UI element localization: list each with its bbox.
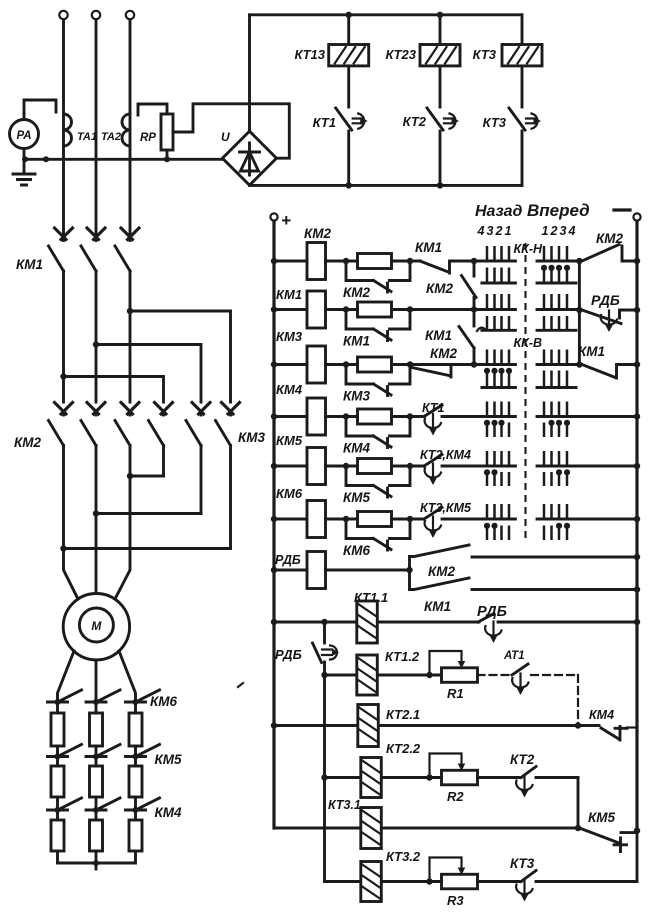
svg-text:КМ1: КМ1 [276, 287, 302, 302]
svg-text:КМ3: КМ3 [238, 430, 266, 445]
svg-text:КТ3: КТ3 [510, 856, 535, 871]
svg-text:КМ3: КМ3 [276, 329, 303, 344]
svg-text:М: М [91, 619, 102, 633]
svg-text:R3: R3 [447, 893, 464, 908]
svg-text:R2: R2 [447, 789, 464, 804]
svg-text:КМ6: КМ6 [150, 694, 178, 709]
svg-text:КМ5: КМ5 [155, 752, 183, 767]
svg-text:КМ1: КМ1 [343, 334, 370, 349]
svg-text:R1: R1 [447, 686, 464, 701]
svg-text:КТ2.2: КТ2.2 [386, 741, 421, 756]
svg-text:КМ4: КМ4 [276, 382, 303, 397]
svg-text:КМ5: КМ5 [276, 433, 303, 448]
svg-text:КМ2: КМ2 [304, 226, 332, 241]
svg-text:КК-В: КК-В [514, 336, 543, 350]
svg-text:РДБ: РДБ [275, 553, 301, 567]
svg-text:RP: RP [140, 132, 156, 144]
svg-text:КМ1: КМ1 [424, 599, 451, 614]
svg-text:АТ1: АТ1 [503, 650, 525, 662]
svg-text:2: 2 [495, 224, 503, 238]
svg-text:РДБ: РДБ [477, 604, 507, 620]
svg-text:КМ6: КМ6 [343, 543, 371, 558]
svg-text:КМ1: КМ1 [415, 240, 442, 255]
svg-text:+: + [281, 211, 291, 230]
svg-text:КМ4: КМ4 [589, 708, 614, 722]
svg-text:КМ2: КМ2 [343, 285, 371, 300]
svg-text:КТ13: КТ13 [294, 47, 325, 62]
svg-text:КМ5: КМ5 [588, 810, 616, 825]
svg-text:U: U [221, 130, 230, 144]
svg-text:КТ1: КТ1 [313, 115, 336, 130]
svg-text:1: 1 [542, 224, 549, 238]
svg-text:КТ1.2: КТ1.2 [385, 649, 420, 664]
svg-text:КМ2: КМ2 [426, 281, 454, 296]
svg-text:КМ3: КМ3 [343, 389, 371, 404]
svg-text:КТ3: КТ3 [473, 47, 497, 62]
svg-text:КТ1.1: КТ1.1 [354, 590, 388, 605]
svg-text:КТ2: КТ2 [510, 752, 535, 767]
svg-text:КМ1: КМ1 [16, 257, 43, 272]
svg-text:КТ1: КТ1 [422, 401, 444, 415]
svg-text:КМ2: КМ2 [430, 346, 458, 361]
svg-text:КТ3: КТ3 [483, 115, 507, 130]
svg-text:КМ1: КМ1 [425, 328, 452, 343]
svg-text:КК-Н: КК-Н [514, 242, 544, 256]
svg-text:КТ3.1: КТ3.1 [328, 798, 361, 812]
svg-text:4: 4 [477, 224, 485, 238]
svg-text:3: 3 [487, 224, 494, 238]
svg-text:РДБ: РДБ [275, 647, 302, 662]
svg-text:КТ3,КМ5: КТ3,КМ5 [420, 501, 472, 515]
svg-text:РДБ: РДБ [591, 292, 620, 308]
svg-text:КТ2: КТ2 [403, 114, 427, 129]
svg-text:TA2: TA2 [101, 131, 121, 143]
svg-text:КТ23: КТ23 [385, 47, 416, 62]
svg-text:КМ1: КМ1 [578, 344, 605, 359]
svg-text:КМ6: КМ6 [276, 486, 303, 501]
svg-text:КМ2: КМ2 [428, 564, 456, 579]
svg-text:Назад: Назад [475, 203, 523, 220]
svg-text:PA: PA [16, 130, 31, 142]
svg-text:1: 1 [505, 224, 512, 238]
svg-text:3: 3 [560, 224, 567, 238]
svg-text:КМ2: КМ2 [596, 231, 624, 246]
svg-text:4: 4 [568, 224, 576, 238]
svg-text:КТ2,КМ4: КТ2,КМ4 [420, 448, 471, 462]
svg-text:КМ4: КМ4 [155, 805, 183, 820]
svg-text:КМ4: КМ4 [343, 441, 371, 456]
svg-text:2: 2 [550, 224, 558, 238]
svg-text:Вперед: Вперед [527, 201, 590, 220]
svg-text:КТ2.1: КТ2.1 [386, 707, 420, 722]
svg-text:TA1: TA1 [77, 131, 97, 143]
svg-text:КТ3.2: КТ3.2 [386, 849, 421, 864]
svg-text:КМ2: КМ2 [14, 435, 42, 450]
svg-text:КМ5: КМ5 [343, 490, 371, 505]
